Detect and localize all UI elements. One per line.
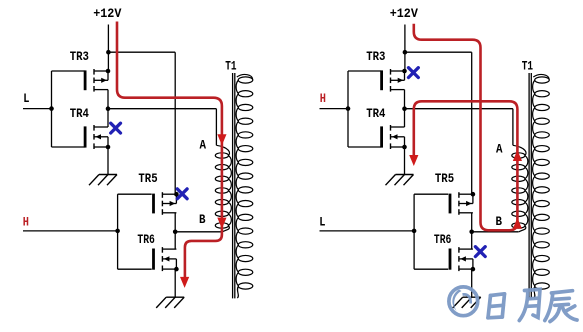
transistor TR4 (right) xyxy=(380,126,383,147)
watermark character chen xyxy=(545,291,577,322)
wire TR4 drain to node (left) xyxy=(107,109,109,127)
wire upper input (right) xyxy=(320,108,349,110)
svg-text:TR3: TR3 xyxy=(366,49,385,64)
svg-text:TR4: TR4 xyxy=(366,106,385,121)
junction lower input (left) xyxy=(115,229,120,234)
svg-text:B: B xyxy=(199,212,206,227)
wire upper input (left) xyxy=(23,108,52,110)
off mark TR6 (right) xyxy=(475,247,485,257)
wire TR6 source to ground (left) xyxy=(174,269,176,297)
svg-text:TR6: TR6 xyxy=(434,232,452,247)
svg-text:+12V: +12V xyxy=(93,6,121,21)
transistor TR5 (left) xyxy=(152,194,155,214)
transformer T1 core (left) xyxy=(232,73,234,298)
wire node B (left) xyxy=(175,231,222,233)
gate bracket TR3/TR4 (left) xyxy=(51,71,53,147)
transistor TR4 (left) xyxy=(84,126,87,147)
junction upper input (right) xyxy=(346,106,351,111)
wire +12V rail to TR5 (right) xyxy=(405,51,472,53)
wire TR5 source to node B (right) xyxy=(471,213,473,232)
svg-text:TR3: TR3 xyxy=(70,49,89,64)
off mark TR3 (right) xyxy=(409,68,419,78)
wire node A (left) xyxy=(108,108,216,110)
transformer T1 core (right) xyxy=(528,73,530,298)
current arrow to ground (right) xyxy=(409,155,418,166)
transformer T1 secondary winding (left) xyxy=(238,77,253,83)
transistor TR5 (right) xyxy=(449,194,452,214)
transistor TR6 (right) xyxy=(449,249,452,270)
junction upper input (left) xyxy=(49,106,54,111)
wire TR4 drain to node (right) xyxy=(404,109,406,127)
wire node A (right) xyxy=(405,108,513,110)
junction +12V split (left) xyxy=(106,50,111,55)
wire TR4 source to ground (right) xyxy=(404,147,406,175)
watermark logo circle xyxy=(449,287,478,316)
junction half-bridge 1 output (right) xyxy=(402,106,407,111)
current arrow at B (right) xyxy=(513,218,522,229)
gate bracket TR5/TR6 (left) xyxy=(117,194,119,269)
junction node B (right) xyxy=(469,230,474,235)
junction lower input (right) xyxy=(412,229,417,234)
wire TR5 source to node B (left) xyxy=(174,213,176,232)
transistor TR6 (left) xyxy=(152,249,155,270)
transformer T1 secondary winding (right) xyxy=(535,77,550,83)
current arrow at A (right) xyxy=(513,150,522,161)
svg-text:A: A xyxy=(200,137,207,152)
wire TR6 source to ground (right) xyxy=(471,269,473,297)
current arrow to ground (left) xyxy=(180,277,189,288)
wire TR3 source to node (left) xyxy=(107,90,109,109)
ground below TR4 (right) xyxy=(396,174,414,176)
gate bracket TR3/TR4 (right) xyxy=(347,71,349,147)
svg-text:H: H xyxy=(23,215,29,230)
transistor TR3 (right) xyxy=(380,70,383,90)
wire +12V stem (right) xyxy=(404,25,406,72)
ground below TR6 (left) xyxy=(166,296,184,298)
transformer T1 primary winding (left) xyxy=(215,153,228,158)
wire TR6 drain to node B (left) xyxy=(174,232,176,249)
ground below TR6 (right) xyxy=(463,296,481,298)
svg-text:+12V: +12V xyxy=(390,6,418,21)
current path left (red) xyxy=(117,22,222,280)
current arrow at B (left) xyxy=(217,218,226,229)
junction half-bridge 1 output (left) xyxy=(106,106,111,111)
watermark character yue(moon) xyxy=(519,289,540,320)
off mark TR5 (left) xyxy=(177,189,187,199)
svg-text:H: H xyxy=(320,91,326,106)
current path right (red) xyxy=(414,24,518,231)
current arrow at A (left) xyxy=(217,134,226,145)
wire TR3 source to node (right) xyxy=(404,90,406,109)
junction node B (left) xyxy=(173,230,178,235)
svg-text:A: A xyxy=(496,141,503,156)
ground below TR4 (left) xyxy=(99,174,117,176)
svg-text:T1: T1 xyxy=(522,58,533,73)
svg-text:L: L xyxy=(23,91,29,106)
svg-text:L: L xyxy=(319,215,325,230)
watermark character ri(sun) xyxy=(488,294,505,318)
gate bracket TR5/TR6 (right) xyxy=(413,194,415,269)
svg-text:TR4: TR4 xyxy=(70,106,89,121)
off mark TR4 (left) xyxy=(111,123,121,133)
wire +12V rail to TR5 (left) xyxy=(108,51,175,53)
wire TR6 drain to node B (right) xyxy=(471,232,473,249)
svg-text:TR6: TR6 xyxy=(137,232,155,247)
wire TR4 source to ground (left) xyxy=(107,147,109,175)
wire node B (right) xyxy=(472,231,519,233)
svg-text:TR5: TR5 xyxy=(138,171,157,186)
svg-text:T1: T1 xyxy=(225,58,236,73)
svg-text:TR5: TR5 xyxy=(435,171,454,186)
svg-text:B: B xyxy=(496,214,503,229)
junction +12V split (right) xyxy=(403,50,408,55)
transistor TR3 (left) xyxy=(84,70,87,90)
wire lower input (left) xyxy=(23,230,118,232)
wire lower input (right) xyxy=(320,230,415,232)
wire +12V stem (left) xyxy=(107,25,109,72)
transformer T1 primary winding (right) xyxy=(512,153,525,158)
